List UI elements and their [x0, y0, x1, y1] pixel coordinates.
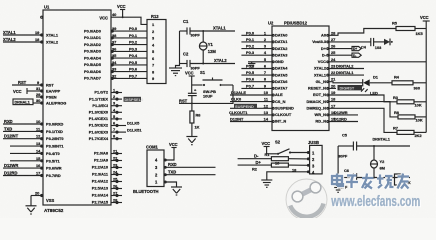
U2 right inside labels — [307, 33, 327, 124]
watermark url www.elecfans.com — [331, 193, 422, 211]
U1 P0 pins 39-32 wires to R13 — [111, 31, 147, 78]
ground right of R13 (C1/C2 common) — [169, 64, 182, 76]
U1 VSS pin20 wire — [31, 191, 43, 196]
U1 pin hooks — [41, 16, 118, 203]
capacitor C1 30PF — [180, 19, 201, 38]
resistor R7 — [393, 126, 426, 139]
resistor R4 — [392, 75, 426, 91]
glyph 子 — [346, 176, 358, 189]
COM1 pin1 wire to ground — [164, 182, 182, 195]
glyph 发 — [362, 174, 374, 189]
net label RST + node — [179, 98, 193, 104]
U2 pin15 RD_N net D12RD — [329, 117, 358, 122]
net label SUSPEND dark blob on U2 pin12 — [234, 104, 257, 109]
LED D1 on U2 pin21 GL_N — [329, 75, 392, 96]
U1 P3 net labels RXD TXD D12INT D12WR D12RD — [4, 119, 19, 176]
U1 left pin RST pin9 + wire + net RST — [12, 80, 43, 85]
U1 P1 pin numbers — [113, 88, 116, 139]
U1 left pin ALE pin30 + boxed net label — [13, 98, 43, 105]
capacitor C5 30PF — [338, 133, 410, 159]
glyph 电 — [332, 174, 343, 187]
watermark logo circle — [286, 179, 327, 220]
U2 pin26 D+ wire + boxed port — [329, 47, 361, 52]
MCU U1 AT89C52 — [43, 5, 111, 214]
connector COM1 BLUETOOTH — [133, 145, 164, 195]
VCC port at USB switch — [262, 141, 271, 154]
COM1 pin3 wire RXD — [164, 162, 216, 167]
wire XTAL1 net — [190, 26, 235, 33]
C5/C6 common wire + ground — [333, 146, 344, 192]
U1 P2 pin numbers — [113, 149, 118, 203]
resistor R9 5.1K near Y2 — [395, 174, 411, 185]
ground on U2 pin5 GND — [248, 62, 255, 67]
net labels on P1.5 P1.6 — [127, 121, 142, 133]
COM1 pin2 wire TXD — [164, 170, 216, 175]
U1 P2 pins 21-28 stubs — [111, 154, 122, 203]
resistor pack R13 — [147, 14, 166, 84]
resistor R8 — [394, 110, 426, 123]
glyph 电 — [332, 174, 343, 187]
U1 P1 pins 1-8 stubs — [111, 93, 126, 139]
net label DISPSEL0 on P1.1 (dark blob) — [124, 97, 144, 102]
connector J2 JUSB — [308, 140, 322, 175]
U2 pin22 XTAL1 net DIGITAL1 — [329, 70, 364, 75]
resistor R3 — [393, 95, 426, 108]
U2 left pin numbers — [264, 30, 269, 121]
VCC port for reset circuit — [185, 71, 195, 94]
J2 pin4 wire to ground — [261, 172, 309, 188]
net label DIGRST dark blob on U2 pin20 RESET_N — [329, 85, 362, 90]
U1 left pin XTAL1 pin19 + wire — [3, 30, 43, 35]
capacitor C6 30PF — [338, 168, 410, 190]
net port D- wire — [238, 154, 272, 159]
capacitor C3 10UF polarized — [188, 88, 213, 104]
glyph 发 — [362, 174, 374, 189]
glyph 子 — [346, 176, 358, 189]
ground below R6 — [186, 137, 197, 145]
U1 left pin EA/VPP pin31 + VCC port — [13, 86, 43, 94]
net label DIGITAL1 bottom — [373, 137, 391, 148]
glyph 烧 — [377, 175, 394, 189]
VCC rail right — [420, 15, 430, 132]
U1 P3 inside labels — [46, 122, 64, 179]
U2 right pin numbers — [331, 30, 336, 121]
U2 pin28 A0 wire to R5 — [329, 29, 396, 36]
U1 left pin PSEN pin29 — [36, 92, 43, 97]
wire XTAL2 net — [190, 58, 235, 64]
connector pin hooks — [164, 152, 309, 183]
U2 left net labels P0.0-P0.7 D12ALE etc — [229, 30, 255, 121]
crystal Y2 6M — [370, 146, 385, 179]
net labels P0.0-P0.7 on wires — [129, 26, 138, 78]
wire C1/C2 common vertical — [179, 31, 181, 64]
U2 left inside labels — [275, 33, 294, 124]
ground at U1 VSS — [26, 196, 37, 215]
U2 pin23 XTAL2 net DIGITAL2 — [329, 64, 364, 69]
resistor R5 — [392, 21, 426, 37]
U1 P1 inside labels — [89, 90, 109, 141]
switch S2 — [267, 140, 310, 155]
glyph 烧 — [377, 175, 394, 189]
U2 pin25 D- wire + boxed port — [329, 53, 361, 58]
U1 P3 pins 10-17 wires — [3, 124, 43, 176]
U2 pin27 Vout3.3 wire + capacitor C4 — [329, 38, 384, 50]
U1 P0 inside labels — [84, 28, 102, 80]
crystal Y1 12M — [199, 31, 216, 65]
resistor R6 1K (reset pulldown) — [190, 103, 201, 136]
USB chip U2 PDIUSBD12 — [268, 21, 329, 131]
glyph 友 — [398, 174, 410, 189]
net port D+ wire — [238, 160, 272, 165]
U1 P0 pin numbers 39..32 — [112, 26, 117, 78]
U2 pin19 EOT_N wire to R3 — [329, 95, 397, 102]
switch S1 SW-PB — [192, 70, 233, 103]
glyph 友 — [398, 174, 410, 189]
diode D2 on Vout3.3 — [384, 39, 393, 46]
watermark text 电子发烧友 (drawn strokes) — [332, 174, 409, 189]
U1 P3 pin numbers — [36, 119, 41, 176]
resistor R1 18 — [265, 152, 310, 166]
U2 pin16 WR_N net D12WR — [329, 110, 358, 115]
COM1 pin4 wire to VCC — [164, 142, 178, 160]
U1 VCC pin40 wire to VCC and R13 pin1 — [111, 12, 147, 24]
resistor R2 18 — [252, 163, 310, 172]
U2 pin17 DMREQ_N wire to R7 — [329, 108, 397, 132]
U2 pin18 DMACK_N wire to R8 — [329, 102, 398, 117]
U2 pin hooks — [272, 34, 328, 122]
U2 left pin wires 1-14 — [230, 35, 272, 121]
VCC symbol above U1 pin40 — [117, 4, 126, 17]
U2 pin24 VCC wire to rail — [329, 61, 426, 63]
U1 left pin XTAL2 pin18 + wire — [3, 37, 43, 42]
capacitor C2 30PF — [180, 52, 201, 71]
U1 P2 inside labels — [92, 151, 109, 205]
